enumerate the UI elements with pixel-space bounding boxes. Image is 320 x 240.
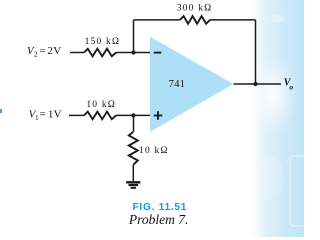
svg-text:o: o [289, 83, 293, 92]
wire: V1 lead to 10k resistor [69, 114, 84, 116]
wire: feedback top left segment [134, 19, 181, 21]
node: output junction [253, 82, 257, 86]
wire: output [234, 83, 282, 85]
source label V1 = 1 V [29, 109, 62, 122]
node: inverting input junction [131, 50, 135, 54]
resistor 10 kOhm (input) [84, 112, 116, 120]
svg-text:V: V [54, 109, 62, 121]
svg-text:1: 1 [48, 109, 54, 121]
wire: 10k resistor to non-inverting input [116, 114, 150, 116]
svg-text:10 kΩ: 10 kΩ [139, 146, 169, 156]
svg-text:V: V [53, 45, 61, 57]
svg-text:1: 1 [35, 113, 39, 122]
svg-text:300 kΩ: 300 kΩ [177, 3, 213, 13]
wire: V2 lead to 150k resistor [70, 52, 84, 54]
resistor 150 kOhm [84, 49, 116, 57]
resistor 300 kOhm (feedback) [180, 16, 210, 24]
svg-text:Problem 7.: Problem 7. [128, 212, 189, 227]
svg-text:=: = [40, 109, 46, 121]
op-amp U1 (741) [150, 37, 234, 132]
wire: junction down to grounded resistor [133, 115, 135, 131]
op-amp inverting input sign [154, 52, 162, 54]
ground [126, 182, 140, 188]
svg-text:10 kΩ: 10 kΩ [86, 100, 116, 110]
wire: grounded resistor to ground [132, 165, 134, 182]
svg-text:=: = [39, 45, 45, 57]
op-amp non-inverting input sign [154, 111, 163, 120]
svg-text:150 kΩ: 150 kΩ [85, 37, 121, 47]
svg-text:2: 2 [47, 45, 53, 57]
node: non-inverting input junction [131, 113, 135, 117]
source label V2 = 2 V [27, 45, 61, 58]
svg-text:741: 741 [169, 79, 186, 90]
wire: 150k resistor to inverting input [116, 52, 150, 54]
svg-text:2: 2 [34, 49, 38, 58]
wire: feedback top right segment [210, 19, 256, 21]
wire: feedback left vertical [133, 20, 135, 53]
wire: feedback right vertical to output [255, 20, 257, 84]
resistor 10 kOhm (to ground) [129, 132, 138, 165]
label Vo (output) [284, 78, 294, 92]
